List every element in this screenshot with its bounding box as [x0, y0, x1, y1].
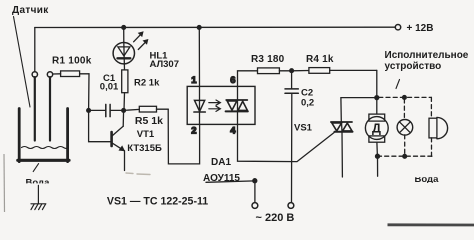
transistor VT1: [112, 110, 125, 170]
wire rail left drop: [34, 28, 36, 72]
triac DA1 internal: [226, 86, 248, 124]
optocoupler DA1: [187, 86, 255, 124]
terminal sensor electrode 2: [47, 72, 52, 77]
node dashed lamp top: [403, 96, 407, 100]
svg-text:R1 100k: R1 100k: [52, 56, 92, 67]
diode DA1 internal LED: [194, 86, 205, 124]
wire R5 to pin 2: [168, 109, 199, 164]
svg-text:0,2: 0,2: [301, 98, 314, 109]
wire lamp top lead: [403, 99, 405, 120]
wire R1 to node A: [88, 74, 90, 111]
node A: [87, 109, 91, 113]
LED HL1: [113, 32, 148, 70]
wire bottom rail to 220V: [206, 181, 255, 182]
svg-text:~ 220 В: ~ 220 В: [256, 212, 295, 224]
wire 220V left terminal lead: [254, 181, 256, 203]
node load junction: [375, 96, 379, 100]
svg-text:VS1: VS1: [294, 123, 313, 134]
wire R4 drop: [376, 70, 378, 97]
label Вода (tank, clipped): [26, 177, 51, 188]
svg-text:4: 4: [230, 126, 236, 137]
terminal sensor electrode 1: [32, 72, 37, 77]
water level: [22, 147, 68, 149]
wire motor bottom: [377, 156, 379, 176]
svg-text:R2 1k: R2 1k: [134, 78, 160, 89]
ground: [31, 185, 46, 209]
wire page edge artifact: [3, 154, 6, 212]
svg-text:R5 1k: R5 1k: [135, 115, 163, 127]
wire pin 4 to gate: [238, 124, 335, 161]
resistor R4: [309, 68, 377, 74]
wire leader executive device: [396, 80, 400, 89]
wire rail to HL1: [123, 27, 125, 42]
resistor R2: [122, 70, 128, 111]
svg-text:R3 180: R3 180: [251, 54, 285, 65]
wire leader Вода: [33, 164, 38, 172]
svg-text:0,01: 0,01: [100, 81, 119, 92]
node +12V rail: [35, 26, 395, 28]
svg-text:DA1: DA1: [211, 157, 231, 168]
node rail junction DA1 pin1: [197, 26, 201, 30]
node dashed lamp bottom: [403, 154, 407, 158]
triac VS1: [331, 122, 353, 177]
wire leader Датчик: [14, 17, 31, 108]
capacitor C1: [89, 104, 124, 116]
node B: [122, 109, 126, 113]
svg-text:2: 2: [191, 126, 196, 137]
wire node to VS1: [341, 98, 377, 122]
bell HA: [429, 117, 448, 138]
svg-text:устройство: устройство: [385, 61, 442, 72]
svg-text:АОУ115: АОУ115: [203, 173, 240, 184]
wire faint emitter continuation: [126, 173, 150, 175]
motor M (Д): [365, 98, 388, 157]
wire DA1 light arrows: [209, 100, 221, 111]
resistor R5: [124, 106, 169, 112]
wire dashed top link: [379, 96, 432, 98]
svg-text:VT1: VT1: [137, 129, 155, 140]
tank (sensor vessel): [18, 109, 69, 162]
terminal +12V: [395, 25, 400, 30]
terminal 220V right: [288, 203, 294, 209]
svg-text:Датчик: Датчик: [12, 5, 49, 16]
svg-text:АЛ307: АЛ307: [150, 59, 180, 70]
capacitor C2: [285, 71, 298, 203]
resistor R1: [53, 71, 89, 77]
lamp HL: [397, 120, 413, 136]
label Вода (right, clipped): [415, 174, 440, 185]
electrode 2: [49, 77, 51, 140]
wire bottom page rule: [388, 223, 474, 226]
resistor R3: [258, 68, 292, 74]
svg-text:6: 6: [230, 75, 235, 86]
wire node A to base: [89, 110, 112, 141]
svg-text:Исполнительное: Исполнительное: [385, 50, 469, 61]
wire bell bottom lead: [431, 138, 433, 156]
svg-text:+ 12В: + 12В: [407, 23, 434, 34]
node motor bottom junction: [376, 154, 380, 158]
wire lamp bottom lead: [404, 135, 406, 156]
node C2 junction: [290, 69, 294, 73]
svg-text:Д: Д: [372, 121, 381, 135]
wire to R4: [292, 70, 309, 72]
svg-text:1: 1: [191, 75, 197, 86]
node 220V junction: [253, 179, 257, 183]
svg-text:КТ315Б: КТ315Б: [127, 143, 162, 154]
wire dashed bottom link: [378, 155, 434, 157]
wire pin 1: [198, 27, 200, 86]
wire bell top lead: [430, 97, 432, 118]
svg-text:VS1 — ТС 122-25-11: VS1 — ТС 122-25-11: [107, 196, 208, 208]
node rail junction HL1: [122, 26, 126, 30]
svg-text:R4 1k: R4 1k: [306, 54, 334, 65]
wire pin 6 riser: [238, 71, 258, 87]
electrode 1: [34, 77, 36, 140]
terminal 220V left: [252, 203, 258, 209]
